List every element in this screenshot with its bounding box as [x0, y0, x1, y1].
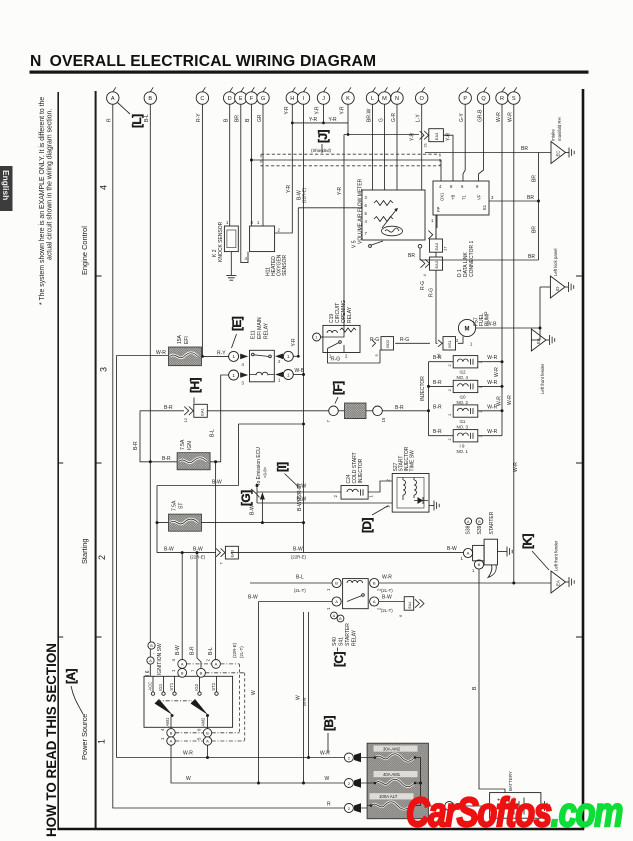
svg-text:L: L — [371, 96, 374, 102]
svg-text:Engine Control: Engine Control — [80, 226, 89, 275]
svg-text:1: 1 — [232, 373, 235, 378]
svg-text:1: 1 — [479, 361, 483, 363]
svg-text:6: 6 — [197, 728, 202, 731]
svg-text:CONNECTOR 1: CONNECTOR 1 — [469, 240, 475, 277]
svg-text:EA3: EA3 — [230, 549, 235, 557]
svg-text:B: B — [150, 644, 153, 648]
svg-text:W-R: W-R — [513, 462, 519, 472]
svg-text:B: B — [472, 686, 478, 690]
svg-text:7.5A: 7.5A — [180, 439, 186, 450]
svg-text:W: W — [186, 776, 191, 782]
svg-text:A: A — [206, 739, 209, 744]
svg-text:Starting: Starting — [80, 539, 89, 564]
svg-text:N OVERALL ELECTRICAL WIRING DI: N OVERALL ELECTRICAL WIRING DIAGRAM — [30, 53, 376, 70]
svg-text:E1: E1 — [482, 204, 487, 210]
svg-text:W-R: W-R — [508, 112, 514, 122]
svg-text:B-W: B-W — [382, 595, 392, 601]
svg-text:6: 6 — [365, 203, 368, 208]
svg-text:1: 1 — [287, 372, 290, 377]
svg-text:E: E — [239, 96, 243, 102]
svg-text:Left front fender: Left front fender — [540, 363, 545, 394]
svg-text:I 6: I 6 — [145, 670, 151, 676]
svg-text:B-W: B-W — [193, 547, 203, 553]
svg-text:3: 3 — [251, 220, 254, 225]
svg-text:R-G: R-G — [420, 281, 426, 290]
svg-text:7.5A: 7.5A — [172, 500, 178, 511]
svg-text:ST2: ST2 — [211, 682, 216, 690]
svg-text:17: 17 — [443, 246, 448, 251]
svg-text:15A: 15A — [177, 334, 183, 344]
svg-text:BR: BR — [527, 195, 534, 201]
svg-text:W: W — [325, 776, 330, 782]
svg-text:EA3: EA3 — [434, 132, 439, 140]
svg-text:1: 1 — [160, 737, 165, 740]
svg-text:[D]: [D] — [360, 518, 374, 533]
svg-text:NO. 4: NO. 4 — [457, 375, 469, 380]
svg-text:OX1: OX1 — [440, 192, 445, 201]
svg-text:(Shielded): (Shielded) — [311, 148, 332, 153]
svg-text:2: 2 — [448, 364, 452, 366]
svg-text:B: B — [335, 581, 338, 586]
svg-text:B: B — [224, 118, 230, 122]
svg-text:W-R: W-R — [156, 350, 166, 356]
svg-text:F: F — [250, 96, 254, 102]
svg-text:2: 2 — [278, 359, 281, 364]
svg-text:(2L-T): (2L-T) — [381, 588, 393, 593]
svg-text:W-R: W-R — [382, 575, 392, 581]
svg-text:STARTER: STARTER — [345, 623, 351, 646]
svg-text:Y-R: Y-R — [315, 106, 321, 115]
svg-text:BR: BR — [532, 226, 538, 233]
svg-text:NO. 1: NO. 1 — [457, 449, 469, 454]
svg-text:Y-R: Y-R — [286, 184, 292, 193]
svg-text:,: , — [150, 653, 155, 654]
svg-text:BR: BR — [408, 253, 415, 259]
svg-text:RELAY: RELAY — [347, 306, 353, 323]
svg-text:NO. 3: NO. 3 — [457, 425, 469, 430]
svg-text:O: O — [420, 96, 425, 102]
svg-text:2: 2 — [206, 659, 211, 662]
svg-text:INJECTOR: INJECTOR — [358, 458, 364, 483]
svg-text:7: 7 — [219, 562, 224, 565]
svg-text:7: 7 — [365, 231, 368, 236]
svg-text:actual circuit shown in the wi: actual circuit shown in the wiring diagr… — [47, 109, 54, 260]
svg-text:B-W: B-W — [164, 547, 174, 553]
svg-text:[J]: [J] — [316, 130, 330, 143]
svg-text:IGN: IGN — [187, 441, 193, 450]
svg-text:12: 12 — [183, 417, 188, 422]
svg-text:Left kick panel: Left kick panel — [553, 248, 558, 276]
svg-text:W-R: W-R — [302, 697, 307, 706]
svg-text:Y-R: Y-R — [291, 338, 297, 347]
svg-text:R-Y: R-Y — [196, 113, 202, 122]
svg-text:(22R-E): (22R-E) — [190, 554, 206, 559]
svg-text:B-R: B-R — [433, 355, 442, 361]
svg-text:S38: S38 — [466, 525, 472, 534]
svg-text:STARTER: STARTER — [489, 511, 495, 534]
svg-text:J: J — [322, 96, 325, 102]
svg-text:4: 4 — [242, 362, 245, 367]
svg-text:BR: BR — [521, 146, 528, 152]
svg-text:B-L: B-L — [208, 647, 214, 655]
svg-text:100A ALT: 100A ALT — [379, 794, 398, 799]
svg-text:1: 1 — [472, 568, 475, 573]
svg-text:<9-8>: <9-8> — [263, 466, 268, 478]
svg-text:Y-R: Y-R — [446, 132, 452, 141]
svg-text:4: 4 — [160, 728, 165, 731]
svg-text:1: 1 — [171, 669, 176, 672]
svg-text:4: 4 — [245, 256, 248, 261]
svg-text:[A]: [A] — [64, 669, 78, 684]
svg-text:G-Y: G-Y — [459, 112, 465, 122]
svg-text:1: 1 — [287, 354, 290, 359]
svg-text:40A AM1: 40A AM1 — [383, 772, 401, 777]
svg-text:* The system shown here is an: * The system shown here is an EXAMPLE ON… — [39, 97, 46, 305]
svg-text:Q: Q — [481, 96, 486, 102]
svg-text:EFI MAIN: EFI MAIN — [257, 317, 263, 339]
svg-text:3: 3 — [365, 195, 368, 200]
svg-text:2: 2 — [386, 479, 391, 482]
svg-text:4: 4 — [365, 219, 368, 224]
svg-text:B-R: B-R — [164, 405, 173, 411]
svg-text:NO. 2: NO. 2 — [457, 400, 469, 405]
svg-text:B: B — [181, 671, 184, 676]
svg-text:B: B — [200, 671, 203, 676]
svg-text:B: B — [206, 731, 209, 736]
svg-text:S40: S40 — [332, 637, 338, 646]
svg-text:A: A — [181, 662, 184, 667]
svg-text:7: 7 — [191, 669, 196, 672]
svg-text:(22R-E): (22R-E) — [291, 554, 307, 559]
svg-text:[C]: [C] — [332, 652, 346, 667]
svg-text:B: B — [170, 731, 173, 736]
svg-text:EA1: EA1 — [200, 407, 205, 415]
svg-text:W-R: W-R — [507, 395, 513, 405]
svg-text:R: R — [327, 802, 331, 808]
svg-text:1: 1 — [257, 220, 260, 225]
svg-text:D: D — [228, 96, 232, 102]
svg-text:+B: +B — [451, 195, 456, 200]
svg-text:Intake: Intake — [551, 129, 556, 141]
svg-text:15: 15 — [381, 417, 386, 422]
svg-text:B-R: B-R — [133, 441, 139, 450]
svg-text:Y-R: Y-R — [309, 117, 318, 123]
svg-text:I11: I11 — [460, 419, 466, 424]
svg-text:B-R: B-R — [433, 404, 442, 410]
svg-text:S39: S39 — [477, 525, 483, 534]
svg-text:B-L: B-L — [210, 429, 216, 437]
svg-text:30A AM2: 30A AM2 — [383, 747, 401, 752]
svg-text:BR-W: BR-W — [366, 108, 372, 122]
svg-text:AM1: AM1 — [165, 717, 170, 726]
svg-text:9: 9 — [476, 184, 479, 189]
svg-text:H: H — [290, 96, 294, 102]
svg-text:EFI: EFI — [184, 336, 190, 344]
svg-text:[H]: [H] — [188, 378, 202, 393]
svg-text:B-R: B-R — [162, 456, 171, 462]
svg-text:W-R: W-R — [494, 367, 500, 377]
svg-text:1: 1 — [326, 607, 331, 610]
svg-text:3: 3 — [491, 195, 494, 200]
svg-text:2: 2 — [456, 338, 459, 343]
svg-text:EA3: EA3 — [434, 260, 439, 268]
svg-text:A: A — [170, 739, 173, 744]
svg-text:VOLUME AIR FLOW METER: VOLUME AIR FLOW METER — [358, 178, 364, 244]
svg-text:K: K — [346, 96, 350, 102]
svg-text:ID: ID — [555, 287, 560, 291]
svg-text:KNOCK SENSOR: KNOCK SENSOR — [218, 221, 224, 262]
svg-text:R-G: R-G — [400, 337, 409, 343]
svg-text:R-G: R-G — [331, 357, 340, 363]
svg-text:(2L-T): (2L-T) — [239, 646, 244, 658]
svg-text:VF: VF — [477, 194, 482, 200]
svg-text:A: A — [467, 551, 470, 556]
svg-text:C: C — [200, 96, 204, 102]
svg-text:B-W: B-W — [212, 480, 222, 486]
svg-text:INJECTOR: INJECTOR — [420, 376, 426, 401]
svg-text:S41: S41 — [339, 637, 345, 646]
svg-text:2: 2 — [333, 495, 338, 498]
svg-text:3: 3 — [99, 367, 109, 372]
svg-text:BR: BR — [235, 115, 241, 122]
svg-text:BATTERY: BATTERY — [508, 771, 513, 791]
svg-text:BS1: BS1 — [447, 339, 452, 347]
svg-text:A: A — [335, 599, 338, 604]
svg-text:B-W: B-W — [248, 595, 258, 601]
svg-text:R-Y: R-Y — [217, 351, 226, 357]
svg-text:CarSoftos.com: CarSoftos.com — [406, 789, 622, 835]
svg-text:6: 6 — [461, 184, 464, 189]
svg-text:N: N — [395, 96, 399, 102]
svg-text:RELAY: RELAY — [264, 322, 270, 339]
svg-text:B-L: B-L — [144, 114, 150, 122]
svg-text:4: 4 — [439, 184, 442, 189]
svg-text:5: 5 — [365, 211, 368, 216]
svg-text:5: 5 — [374, 354, 379, 357]
svg-text:A: A — [111, 96, 115, 102]
svg-text:Y-R: Y-R — [339, 106, 345, 115]
svg-text:G: G — [261, 96, 265, 102]
svg-text:4: 4 — [171, 659, 176, 662]
svg-text:7: 7 — [326, 420, 331, 423]
svg-text:I 9: I 9 — [460, 444, 465, 449]
svg-text:1: 1 — [278, 378, 281, 383]
svg-text:ST: ST — [179, 503, 185, 509]
svg-text:English: English — [1, 170, 11, 200]
svg-text:W-R: W-R — [487, 404, 497, 410]
svg-text:(2L-T): (2L-T) — [381, 608, 393, 613]
svg-text:2: 2 — [278, 228, 281, 233]
svg-text:(22R-E): (22R-E) — [232, 642, 237, 658]
svg-text:B: B — [373, 581, 376, 586]
svg-text:B-W: B-W — [447, 546, 457, 552]
svg-text:IG1: IG1 — [158, 683, 163, 691]
svg-text:AM2: AM2 — [201, 717, 206, 726]
svg-text:(2L-T): (2L-T) — [294, 588, 306, 593]
svg-text:Y-R: Y-R — [329, 117, 338, 123]
svg-text:W: W — [296, 695, 302, 700]
svg-text:5: 5 — [197, 737, 202, 740]
svg-text:[F]: [F] — [331, 381, 345, 395]
svg-text:Left front fender: Left front fender — [554, 540, 559, 571]
svg-text:8: 8 — [450, 184, 453, 189]
svg-text:A: A — [215, 662, 218, 667]
svg-text:A: A — [373, 599, 376, 604]
svg-text:W: W — [251, 690, 257, 695]
svg-text:W-R: W-R — [497, 396, 503, 406]
svg-text:W-R: W-R — [487, 429, 497, 435]
svg-text:B-R: B-R — [190, 646, 196, 655]
svg-text:I12: I12 — [460, 370, 467, 375]
svg-text:R: R — [500, 96, 504, 102]
svg-text:HOW TO READ THIS SECTION: HOW TO READ THIS SECTION — [44, 643, 59, 837]
svg-text:Y-R: Y-R — [284, 106, 290, 115]
svg-text:M: M — [382, 96, 387, 102]
svg-text:PUMP: PUMP — [485, 311, 491, 326]
svg-text:L-Y: L-Y — [416, 114, 422, 122]
svg-text:Power Source: Power Source — [80, 714, 89, 760]
svg-text:EA3: EA3 — [434, 242, 439, 250]
svg-text:B-R: B-R — [395, 405, 404, 411]
svg-text:EA4: EA4 — [408, 602, 412, 609]
svg-text:3: 3 — [242, 381, 245, 386]
svg-text:I10: I10 — [460, 394, 467, 399]
svg-text:T1: T1 — [462, 194, 467, 200]
svg-text:1: 1 — [470, 342, 473, 347]
svg-text:B-W: B-W — [175, 645, 181, 655]
svg-text:1: 1 — [369, 495, 374, 498]
svg-text:21: 21 — [423, 142, 428, 147]
svg-text:W-R: W-R — [183, 751, 193, 757]
svg-text:GR-B: GR-B — [477, 109, 483, 122]
svg-text:W-R: W-R — [320, 751, 330, 757]
svg-text:[G]: [G] — [239, 490, 253, 506]
svg-text:manifold RH: manifold RH — [557, 117, 562, 141]
svg-text:1: 1 — [326, 588, 331, 591]
svg-text:IGNITION SW: IGNITION SW — [157, 643, 163, 675]
svg-text:1: 1 — [226, 220, 229, 225]
svg-text:1: 1 — [232, 354, 235, 359]
svg-text:B-W: B-W — [297, 497, 307, 503]
svg-text:G-R: G-R — [391, 112, 397, 122]
svg-text:B-L: B-L — [296, 575, 304, 581]
svg-text:4: 4 — [422, 274, 427, 277]
svg-text:W-R: W-R — [487, 380, 497, 386]
svg-text:Y-R: Y-R — [410, 132, 416, 141]
svg-text:BR: BR — [528, 254, 535, 260]
svg-text:[E]: [E] — [230, 316, 244, 331]
svg-text:M: M — [465, 327, 470, 333]
svg-text:[K]: [K] — [521, 534, 535, 549]
svg-text:W-R: W-R — [496, 112, 502, 122]
svg-text:P: P — [463, 96, 467, 102]
svg-text:1: 1 — [461, 556, 464, 561]
svg-text:FP: FP — [436, 206, 441, 212]
svg-text:RELAY: RELAY — [352, 629, 358, 646]
svg-text:S: S — [512, 96, 516, 102]
svg-text:[I]: [I] — [275, 462, 289, 472]
svg-text:Y-R: Y-R — [337, 186, 343, 195]
svg-text:TIME SW: TIME SW — [410, 450, 416, 472]
svg-text:B-R: B-R — [433, 429, 442, 435]
svg-text:R-G: R-G — [429, 288, 435, 297]
svg-text:EA: EA — [536, 338, 541, 344]
svg-text:ACC: ACC — [148, 682, 153, 691]
svg-text:BR: BR — [532, 175, 538, 182]
svg-text:To Emission ECU: To Emission ECU — [256, 447, 262, 486]
svg-text:E11: E11 — [251, 330, 257, 339]
svg-text:BO2: BO2 — [385, 339, 390, 348]
svg-text:[L]: [L] — [130, 114, 144, 128]
svg-text:W-B: W-B — [295, 368, 305, 374]
svg-text:2: 2 — [345, 354, 348, 359]
svg-text:4: 4 — [99, 185, 109, 190]
svg-text:[B]: [B] — [322, 716, 336, 731]
svg-text:IG2: IG2 — [194, 683, 199, 691]
svg-text:1: 1 — [97, 739, 107, 744]
svg-text:B: B — [245, 118, 251, 122]
svg-text:ST1: ST1 — [169, 682, 174, 690]
svg-text:B-W: B-W — [293, 547, 303, 553]
svg-text:A: A — [149, 659, 152, 663]
svg-text:GR: GR — [257, 114, 263, 122]
svg-text:R: R — [107, 118, 113, 122]
svg-text:(22R-E): (22R-E) — [302, 187, 307, 203]
svg-text:W-R: W-R — [487, 355, 497, 361]
svg-text:B: B — [148, 96, 152, 102]
svg-text:1: 1 — [431, 218, 434, 223]
svg-text:SENSOR: SENSOR — [282, 254, 288, 276]
svg-text:2: 2 — [97, 555, 107, 560]
svg-text:G: G — [378, 118, 384, 122]
svg-text:EC: EC — [556, 150, 561, 156]
svg-text:B: B — [478, 562, 481, 567]
svg-text:6: 6 — [398, 614, 403, 617]
svg-text:EA: EA — [556, 580, 561, 586]
svg-text:B-R: B-R — [433, 380, 442, 386]
